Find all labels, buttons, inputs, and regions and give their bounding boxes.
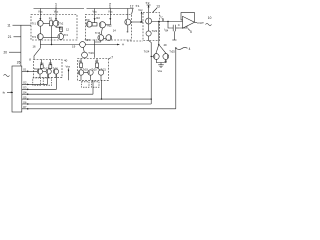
svg-text:1: 1 [55, 2, 58, 7]
svg-text:Tr4: Tr4 [64, 33, 68, 37]
svg-text:Tr21: Tr21 [101, 67, 107, 71]
capacitor C [172, 23, 180, 31]
wire cell1 bases [43, 36, 58, 38]
svg-text:Tr15: Tr15 [85, 38, 91, 42]
svg-text:fs: fs [3, 91, 6, 95]
transistor Tr11 [99, 22, 112, 28]
svg-text:Tr12: Tr12 [106, 24, 112, 28]
resistor R6 [79, 59, 83, 68]
transistor Tr20 [88, 67, 97, 75]
label 5 [188, 28, 192, 33]
output O3 [22, 86, 57, 91]
label 13 [153, 4, 160, 12]
svg-text:O1: O1 [23, 68, 27, 72]
svg-text:14: 14 [113, 29, 116, 33]
wire node to cell1 [21, 24, 31, 26]
current source circle [146, 18, 152, 24]
svg-text:7: 7 [111, 56, 113, 60]
wire left vertical [20, 25, 22, 66]
svg-text:16: 16 [33, 45, 36, 49]
output O7 [22, 105, 176, 110]
svg-text:Tr23: Tr23 [152, 29, 158, 33]
feedback wire [181, 13, 195, 23]
output O4 [22, 91, 93, 96]
cell 1 dashed box [31, 15, 77, 41]
svg-text:10: 10 [208, 16, 212, 20]
label IB4 [164, 28, 169, 33]
transistor Tr21 [97, 67, 106, 75]
wire cell2 bases [104, 37, 106, 39]
dashed box 13 [143, 13, 160, 41]
svg-text:Vcc: Vcc [38, 10, 43, 14]
label Ic [160, 14, 164, 21]
transistor Tr2 [53, 20, 64, 26]
svg-text:21: 21 [8, 35, 12, 39]
svg-text:Tr1: Tr1 [32, 22, 36, 26]
svg-text:Vcc: Vcc [108, 10, 113, 14]
wire riser bus7 [175, 47, 176, 109]
svg-text:Tr3: Tr3 [32, 35, 36, 39]
svg-text:✳: ✳ [126, 30, 129, 34]
output O2 [22, 81, 48, 86]
wire riser bus3 [56, 74, 58, 89]
transistor Tr16a [82, 47, 95, 58]
Vcc stub 14 node [138, 8, 143, 23]
svg-text:26: 26 [17, 61, 21, 65]
Vcc feed source 13 [147, 5, 151, 18]
counter box 26 [12, 66, 22, 112]
svg-text:Tr2: Tr2 [59, 22, 63, 26]
Vcc feed right cell1 [54, 9, 59, 21]
ground Vss [158, 65, 164, 73]
gate box 30 [92, 82, 100, 87]
svg-text:11: 11 [7, 23, 11, 27]
transistor Tr15 [80, 38, 91, 47]
svg-text:O7: O7 [23, 105, 27, 109]
resistor R1 [43, 16, 53, 25]
transistor Tr18 [53, 68, 59, 75]
gate box 29 [82, 82, 90, 87]
transistor Tr16 [34, 68, 43, 74]
svg-text:2: 2 [109, 2, 112, 7]
transistor Tr9 [86, 18, 93, 27]
svg-text:Tr24: Tr24 [144, 50, 150, 54]
svg-text:R1: R1 [49, 16, 53, 20]
svg-text:O5: O5 [23, 95, 27, 99]
svg-text:12: 12 [66, 27, 69, 31]
ground stub under C [172, 31, 176, 40]
wire cell7 base row [84, 72, 88, 74]
wire cell5 bottoms [40, 74, 56, 78]
transistor Tr25 [163, 50, 175, 60]
label 20 [4, 50, 21, 54]
wire Tr1 to Tr3 [39, 26, 41, 34]
wire to capacitor [168, 22, 172, 29]
wire emitters to ground [156, 59, 166, 64]
svg-text:Tr25: Tr25 [169, 50, 175, 54]
svg-text:C: C [178, 23, 180, 27]
svg-text:8: 8 [29, 57, 31, 61]
svg-text:Vss: Vss [158, 69, 163, 73]
resistor R3 [92, 16, 100, 26]
transistor Tr3 [32, 34, 43, 40]
sine input symbol [4, 75, 10, 77]
wire cell1 left drop [34, 40, 40, 60]
svg-text:Tr19: Tr19 [83, 67, 89, 71]
transistor Tr17 [44, 68, 52, 75]
Vcc rail cell 1 [34, 8, 85, 10]
label 21 [8, 35, 21, 39]
svg-text:13: 13 [156, 4, 160, 8]
resistor R5 [49, 60, 53, 69]
svg-text:Tr13: Tr13 [95, 31, 101, 35]
dashed link to box13 [127, 40, 143, 42]
transistor Tr14 [125, 9, 131, 35]
wire cell1 to Tr15 [40, 44, 79, 49]
wire Tr15 chain right [85, 44, 119, 46]
sine output symbol [206, 24, 212, 26]
svg-text:✳2: ✳2 [145, 1, 150, 5]
svg-text:5: 5 [190, 30, 192, 34]
wire riser bus4 [92, 80, 94, 94]
svg-text:O4: O4 [23, 91, 27, 95]
svg-text:O2: O2 [23, 81, 27, 85]
output O1 [22, 68, 38, 73]
transistor Tr1 [32, 20, 43, 26]
svg-text:✳1: ✳1 [135, 4, 140, 8]
svg-text:Vcc: Vcc [138, 8, 143, 12]
output O5 [22, 95, 151, 100]
svg-text:Vcc: Vcc [54, 10, 59, 14]
arrowhead wire end [117, 44, 120, 46]
wire cell2 bottom [94, 40, 96, 58]
Vss feed mid [66, 64, 71, 80]
svg-text:19: 19 [72, 44, 76, 48]
Vcc feed left cell2 [92, 9, 97, 21]
svg-text:20: 20 [4, 50, 8, 54]
output O6 [22, 100, 151, 105]
label 1 [55, 2, 58, 9]
resistor R4 [40, 60, 44, 69]
output wire [195, 21, 198, 23]
label 11 [7, 23, 21, 27]
wire base chain 49 [156, 21, 167, 54]
cell 7 dashed box [78, 59, 109, 81]
Vcc feed left cell1 [38, 9, 43, 21]
svg-text:B4: B4 [165, 31, 169, 33]
transistor Tr12 [98, 35, 104, 41]
transistor Tr23 [146, 24, 158, 36]
transistor Tr4 [58, 33, 69, 40]
svg-text:49: 49 [164, 43, 167, 47]
wire cell7 bottoms [81, 75, 101, 80]
wire Vcc drop left join [94, 20, 96, 22]
svg-text:Vss: Vss [66, 64, 71, 68]
transistor Tr13 [95, 31, 112, 40]
gate box 28 [43, 78, 52, 85]
svg-text:40: 40 [64, 59, 68, 63]
svg-text:Tr16: Tr16 [88, 51, 94, 55]
Vcc feed right cell2 [108, 9, 113, 21]
svg-text:O6: O6 [23, 100, 27, 104]
wire Tr11 down [101, 28, 102, 35]
wire collector Tr24 [151, 56, 154, 57]
Vcc rail cell 2 [87, 8, 134, 10]
wire cell1 bottom [51, 37, 53, 44]
node junction [167, 21, 168, 22]
cell 2 dashed box [85, 15, 131, 41]
wire box13 to Tr24 [149, 36, 152, 104]
svg-text:R2: R2 [96, 16, 100, 20]
label 2 [109, 2, 112, 9]
wire main to op-amp [152, 21, 183, 23]
transistor Tr19 [78, 67, 88, 75]
label 4 [176, 47, 191, 51]
svg-text:O3: O3 [23, 86, 27, 90]
gate box 27 [33, 78, 41, 85]
wire Tr12 emitter [95, 41, 101, 43]
resistor R2 cell1 [56, 26, 63, 33]
wire R1 to base bar [51, 26, 53, 38]
label 7 [109, 56, 114, 60]
transistor Tr24 [144, 50, 159, 60]
wire riser bus5 [101, 80, 103, 99]
svg-text:12: 12 [130, 4, 134, 8]
resistor R7 [95, 59, 99, 68]
wire cell5 base row [43, 71, 47, 73]
label fs [3, 91, 13, 95]
svg-text:Vcc: Vcc [92, 10, 97, 14]
wire cap to inverting input [179, 26, 187, 28]
wire Vcc drop right join [106, 20, 111, 25]
svg-text:Tr9: Tr9 [86, 18, 90, 22]
output arrow 14 [120, 21, 143, 23]
op-amp U1 [183, 16, 195, 28]
svg-text:4: 4 [189, 47, 191, 51]
wire riser bus2 [47, 74, 49, 84]
cell 5 dashed box [34, 60, 63, 78]
svg-text:OUT: OUT [197, 21, 204, 25]
label 12 [130, 4, 134, 14]
svg-text:✳: ✳ [122, 42, 125, 46]
